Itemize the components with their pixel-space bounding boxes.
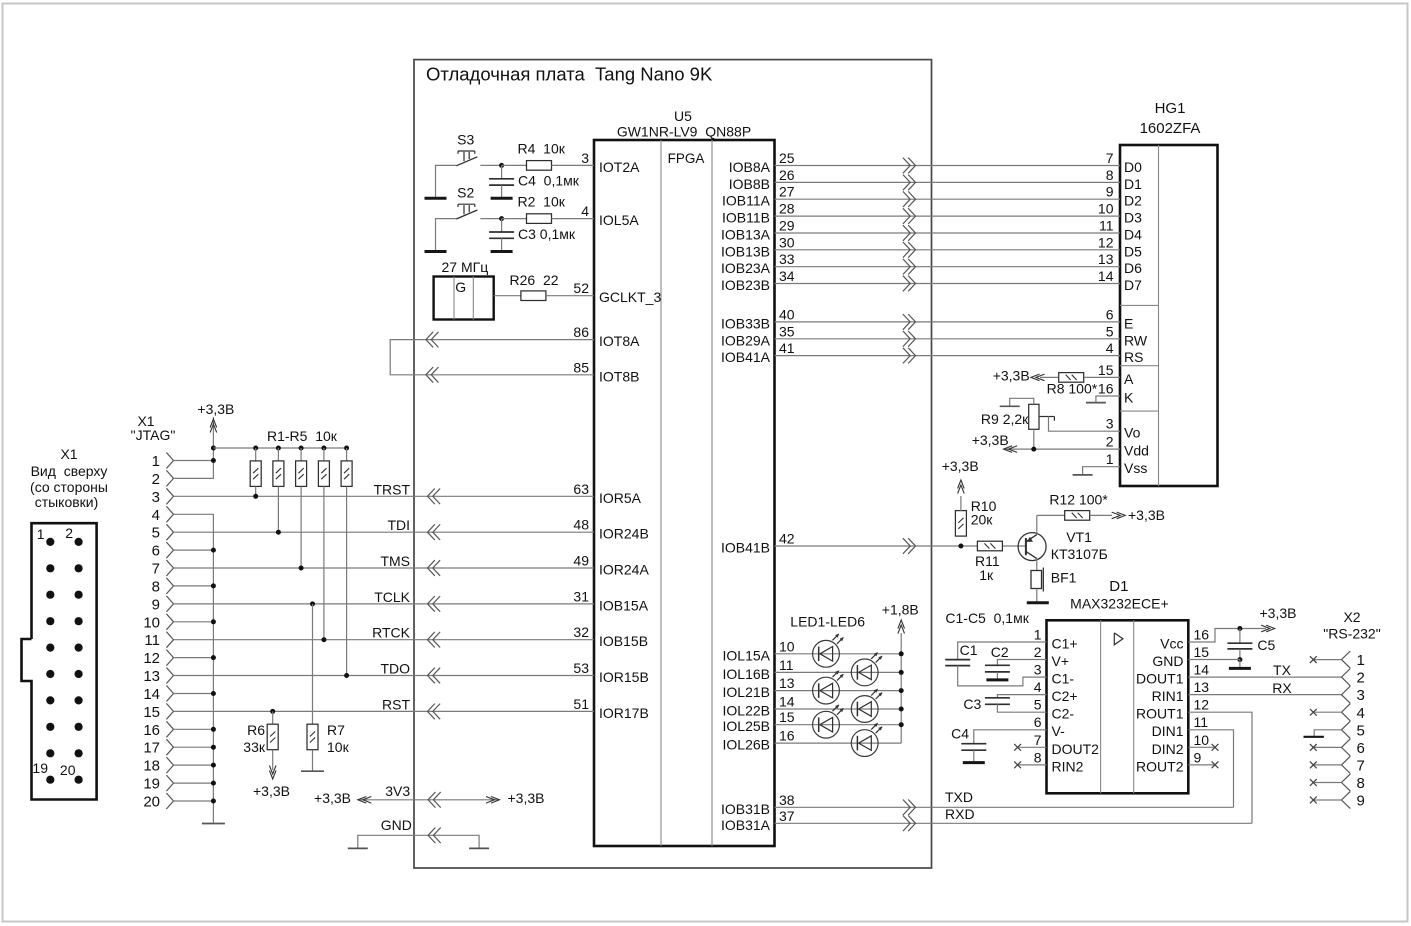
svg-text:5: 5 xyxy=(1357,722,1365,739)
svg-text:R9 2,2к: R9 2,2к xyxy=(981,411,1029,427)
svg-text:52: 52 xyxy=(573,280,589,296)
svg-text:D3: D3 xyxy=(1124,210,1142,226)
svg-text:R2 10к: R2 10к xyxy=(518,194,566,210)
svg-text:VT1: VT1 xyxy=(1066,529,1092,545)
svg-text:3: 3 xyxy=(1106,416,1114,432)
svg-text:2: 2 xyxy=(152,471,160,488)
svg-text:RST: RST xyxy=(382,696,410,712)
svg-text:IOB33B: IOB33B xyxy=(721,315,770,331)
svg-text:31: 31 xyxy=(573,588,589,604)
svg-text:R1-R5 10к: R1-R5 10к xyxy=(267,428,338,444)
svg-text:42: 42 xyxy=(779,531,795,547)
svg-text:RX: RX xyxy=(1272,680,1292,696)
svg-text:GW1NR-LV9 QN88P: GW1NR-LV9 QN88P xyxy=(617,124,751,140)
svg-text:8: 8 xyxy=(152,578,160,595)
svg-text:C2+: C2+ xyxy=(1052,688,1078,704)
svg-text:"JTAG": "JTAG" xyxy=(131,427,176,443)
svg-text:Отладочная плата Tang Nano 9K: Отладочная плата Tang Nano 9K xyxy=(426,64,713,85)
svg-text:14: 14 xyxy=(143,686,160,703)
svg-text:13: 13 xyxy=(1194,679,1210,695)
svg-text:6: 6 xyxy=(1106,306,1114,322)
svg-text:9: 9 xyxy=(1357,793,1365,810)
svg-text:DOUT2: DOUT2 xyxy=(1052,741,1100,757)
svg-text:K: K xyxy=(1124,390,1134,406)
svg-text:3: 3 xyxy=(1034,662,1042,678)
svg-text:Vss: Vss xyxy=(1124,460,1147,476)
svg-text:Vo: Vo xyxy=(1124,425,1141,441)
svg-text:IOT8B: IOT8B xyxy=(599,368,639,384)
svg-text:RS: RS xyxy=(1124,349,1143,365)
svg-text:12: 12 xyxy=(143,650,160,667)
svg-text:17: 17 xyxy=(143,740,160,757)
svg-text:3: 3 xyxy=(1357,687,1365,704)
svg-text:+3,3В: +3,3В xyxy=(972,432,1009,448)
svg-text:R12 100*: R12 100* xyxy=(1049,492,1108,508)
svg-text:8: 8 xyxy=(1357,775,1365,792)
svg-text:IOL21B: IOL21B xyxy=(723,684,770,700)
svg-text:5: 5 xyxy=(152,525,160,542)
svg-text:40: 40 xyxy=(779,306,795,322)
svg-text:48: 48 xyxy=(573,517,589,533)
svg-text:38: 38 xyxy=(779,792,795,808)
svg-text:V+: V+ xyxy=(1052,653,1070,669)
svg-text:15: 15 xyxy=(779,709,795,725)
svg-text:11: 11 xyxy=(779,657,794,673)
svg-text:5: 5 xyxy=(1034,697,1042,713)
svg-text:A: A xyxy=(1124,371,1134,387)
svg-text:4: 4 xyxy=(1106,340,1114,356)
svg-text:4: 4 xyxy=(152,507,160,524)
svg-text:IOB15B: IOB15B xyxy=(599,633,648,649)
svg-text:7: 7 xyxy=(1106,150,1114,166)
svg-text:X1: X1 xyxy=(60,446,77,462)
svg-text:3V3: 3V3 xyxy=(385,783,410,799)
svg-text:+3,3В: +3,3В xyxy=(1128,507,1165,523)
svg-text:X2: X2 xyxy=(1343,609,1360,625)
svg-text:15: 15 xyxy=(143,704,160,721)
svg-text:C2-: C2- xyxy=(1052,706,1075,722)
svg-text:+3,3В: +3,3В xyxy=(508,790,545,806)
svg-text:R6: R6 xyxy=(247,722,265,738)
svg-text:3: 3 xyxy=(152,489,160,506)
svg-text:+3,3В: +3,3В xyxy=(1260,605,1297,621)
svg-text:10: 10 xyxy=(1194,732,1210,748)
svg-text:13: 13 xyxy=(779,675,795,691)
svg-text:C1: C1 xyxy=(960,642,978,658)
svg-text:13: 13 xyxy=(1098,251,1114,267)
svg-text:20к: 20к xyxy=(971,512,994,528)
svg-text:КТ3107Б: КТ3107Б xyxy=(1051,546,1108,562)
svg-text:IOL16B: IOL16B xyxy=(723,666,770,682)
svg-text:IOB8B: IOB8B xyxy=(729,176,770,192)
svg-text:27 МГц: 27 МГц xyxy=(442,259,489,275)
svg-text:GND: GND xyxy=(381,817,412,833)
svg-text:16: 16 xyxy=(779,728,795,744)
svg-text:5: 5 xyxy=(1106,323,1114,339)
svg-text:85: 85 xyxy=(573,359,589,375)
svg-text:TCLK: TCLK xyxy=(374,589,410,605)
svg-text:DOUT1: DOUT1 xyxy=(1136,671,1184,687)
svg-text:TRST: TRST xyxy=(373,481,410,497)
svg-text:D1: D1 xyxy=(1109,578,1128,595)
svg-text:(со стороны: (со стороны xyxy=(30,479,108,495)
svg-text:15: 15 xyxy=(1194,644,1210,660)
svg-text:GND: GND xyxy=(1152,653,1183,669)
svg-text:S2: S2 xyxy=(457,185,474,201)
svg-text:25: 25 xyxy=(779,150,795,166)
svg-text:C4 0,1мк: C4 0,1мк xyxy=(518,173,580,189)
svg-text:BF1: BF1 xyxy=(1051,570,1077,586)
svg-text:IOB13B: IOB13B xyxy=(721,243,770,259)
svg-text:C3: C3 xyxy=(963,696,981,712)
svg-text:LED1-LED6: LED1-LED6 xyxy=(790,614,865,630)
svg-text:RIN2: RIN2 xyxy=(1052,758,1084,774)
svg-text:IOB31B: IOB31B xyxy=(721,801,770,817)
svg-text:12: 12 xyxy=(1098,234,1114,250)
svg-text:D0: D0 xyxy=(1124,159,1142,175)
svg-text:G: G xyxy=(455,279,466,295)
svg-text:R26 22: R26 22 xyxy=(510,272,559,288)
svg-text:37: 37 xyxy=(779,808,795,824)
svg-text:IOB29A: IOB29A xyxy=(721,332,771,348)
svg-text:HG1: HG1 xyxy=(1155,100,1186,117)
svg-text:RTCK: RTCK xyxy=(372,625,411,641)
svg-text:R8 100*: R8 100* xyxy=(1047,381,1098,397)
svg-text:11: 11 xyxy=(1194,714,1209,730)
svg-text:10: 10 xyxy=(143,614,160,631)
svg-text:IOR5A: IOR5A xyxy=(599,490,642,506)
svg-text:34: 34 xyxy=(779,268,795,284)
svg-text:16: 16 xyxy=(1098,381,1114,397)
svg-text:10: 10 xyxy=(1098,201,1114,217)
svg-text:IOT2A: IOT2A xyxy=(599,159,640,175)
svg-text:IOB15A: IOB15A xyxy=(599,597,649,613)
svg-text:4: 4 xyxy=(1357,705,1365,722)
svg-text:8: 8 xyxy=(1106,167,1114,183)
svg-text:6: 6 xyxy=(152,543,160,560)
svg-text:Vcc: Vcc xyxy=(1160,636,1183,652)
svg-text:IOB23A: IOB23A xyxy=(721,260,771,276)
svg-text:RXD: RXD xyxy=(945,806,975,822)
svg-text:+3,3В: +3,3В xyxy=(253,783,290,799)
svg-text:1602ZFA: 1602ZFA xyxy=(1140,120,1201,137)
svg-text:49: 49 xyxy=(573,553,589,569)
svg-text:6: 6 xyxy=(1034,714,1042,730)
svg-text:C1-: C1- xyxy=(1052,671,1075,687)
svg-text:D6: D6 xyxy=(1124,260,1142,276)
svg-text:86: 86 xyxy=(573,324,589,340)
svg-text:IOB41A: IOB41A xyxy=(721,349,771,365)
svg-text:D2: D2 xyxy=(1124,193,1142,209)
svg-text:9: 9 xyxy=(152,596,160,613)
svg-text:15: 15 xyxy=(1098,362,1114,378)
svg-text:14: 14 xyxy=(1098,268,1114,284)
svg-text:C1-C5 0,1мк: C1-C5 0,1мк xyxy=(945,610,1029,626)
svg-text:IOL5A: IOL5A xyxy=(599,212,639,228)
svg-text:13: 13 xyxy=(143,668,160,685)
svg-text:7: 7 xyxy=(152,561,160,578)
svg-text:FPGA: FPGA xyxy=(668,151,705,166)
svg-text:1к: 1к xyxy=(979,567,994,583)
svg-text:20: 20 xyxy=(143,794,160,811)
svg-text:IOB31A: IOB31A xyxy=(721,817,771,833)
svg-text:7: 7 xyxy=(1034,732,1042,748)
svg-text:12: 12 xyxy=(1194,697,1210,713)
svg-text:27: 27 xyxy=(779,184,795,200)
svg-text:IOL22B: IOL22B xyxy=(723,703,770,719)
svg-text:6: 6 xyxy=(1357,740,1365,757)
svg-text:8: 8 xyxy=(1034,749,1042,765)
svg-text:C2: C2 xyxy=(991,644,1009,660)
svg-text:MAX3232ECE+: MAX3232ECE+ xyxy=(1070,596,1168,612)
svg-text:DIN1: DIN1 xyxy=(1152,723,1184,739)
svg-text:+3,3В: +3,3В xyxy=(942,458,979,474)
svg-text:30: 30 xyxy=(779,234,795,250)
svg-text:9: 9 xyxy=(1106,184,1114,200)
svg-text:10: 10 xyxy=(779,638,795,654)
svg-text:TDI: TDI xyxy=(387,517,410,533)
svg-text:9: 9 xyxy=(1194,749,1202,765)
svg-text:1: 1 xyxy=(1034,627,1042,643)
svg-text:R4 10к: R4 10к xyxy=(518,140,566,156)
svg-text:19: 19 xyxy=(143,776,160,793)
svg-text:14: 14 xyxy=(779,694,795,710)
svg-text:4: 4 xyxy=(1034,679,1042,695)
svg-text:2: 2 xyxy=(65,525,73,541)
svg-text:V-: V- xyxy=(1052,723,1066,739)
svg-text:IOB13A: IOB13A xyxy=(721,227,771,243)
svg-text:+3,3В: +3,3В xyxy=(993,368,1030,384)
svg-text:"RS-232": "RS-232" xyxy=(1323,626,1380,642)
svg-text:51: 51 xyxy=(573,696,589,712)
svg-text:1: 1 xyxy=(152,453,160,470)
svg-text:IOB11B: IOB11B xyxy=(722,210,770,226)
svg-text:1: 1 xyxy=(37,526,45,542)
svg-text:+3,3В: +3,3В xyxy=(197,401,234,417)
svg-text:1: 1 xyxy=(1357,652,1365,669)
svg-text:IOB8A: IOB8A xyxy=(729,159,771,175)
svg-text:R7: R7 xyxy=(327,722,345,738)
svg-text:4: 4 xyxy=(581,203,589,219)
svg-text:TXD: TXD xyxy=(945,789,973,805)
svg-text:11: 11 xyxy=(1099,218,1114,234)
svg-text:33к: 33к xyxy=(243,739,266,755)
svg-text:3: 3 xyxy=(581,150,589,166)
svg-text:28: 28 xyxy=(779,201,795,217)
svg-text:11: 11 xyxy=(144,632,160,649)
svg-text:S3: S3 xyxy=(457,131,474,147)
svg-text:C4: C4 xyxy=(951,725,969,741)
svg-text:DIN2: DIN2 xyxy=(1152,741,1184,757)
svg-text:26: 26 xyxy=(779,167,795,183)
svg-text:19: 19 xyxy=(32,760,48,776)
svg-text:IOR24A: IOR24A xyxy=(599,562,649,578)
svg-text:33: 33 xyxy=(779,251,795,267)
svg-text:TX: TX xyxy=(1273,662,1292,678)
svg-text:10к: 10к xyxy=(327,739,350,755)
svg-text:C5: C5 xyxy=(1257,637,1275,653)
svg-text:Вид сверху: Вид сверху xyxy=(31,463,108,479)
svg-text:18: 18 xyxy=(143,758,160,775)
svg-text:ROUT1: ROUT1 xyxy=(1136,706,1184,722)
svg-text:35: 35 xyxy=(779,323,795,339)
svg-text:стыковки): стыковки) xyxy=(35,494,99,510)
svg-text:20: 20 xyxy=(60,762,76,778)
svg-text:53: 53 xyxy=(573,660,589,676)
svg-text:63: 63 xyxy=(573,481,589,497)
svg-text:IOT8A: IOT8A xyxy=(599,333,640,349)
svg-text:32: 32 xyxy=(573,624,589,640)
svg-text:D5: D5 xyxy=(1124,243,1142,259)
svg-text:29: 29 xyxy=(779,218,795,234)
svg-text:+3,3В: +3,3В xyxy=(314,790,351,806)
svg-text:U5: U5 xyxy=(674,108,692,124)
svg-text:14: 14 xyxy=(1194,662,1210,678)
svg-text:GCLKT_3: GCLKT_3 xyxy=(599,289,661,305)
svg-text:RIN1: RIN1 xyxy=(1152,688,1184,704)
svg-text:16: 16 xyxy=(1194,627,1210,643)
svg-text:D1: D1 xyxy=(1124,176,1142,192)
svg-text:1: 1 xyxy=(1106,451,1114,467)
svg-text:2: 2 xyxy=(1034,644,1042,660)
svg-text:IOB41B: IOB41B xyxy=(721,540,770,556)
svg-text:IOL15A: IOL15A xyxy=(723,647,771,663)
svg-text:ROUT2: ROUT2 xyxy=(1136,758,1184,774)
svg-text:TDO: TDO xyxy=(380,661,410,677)
svg-text:IOR15B: IOR15B xyxy=(599,669,649,685)
svg-text:C1+: C1+ xyxy=(1052,636,1078,652)
svg-text:D4: D4 xyxy=(1124,227,1142,243)
svg-text:Vdd: Vdd xyxy=(1124,443,1149,459)
svg-text:+1,8В: +1,8В xyxy=(882,602,919,618)
svg-text:IOL26B: IOL26B xyxy=(723,737,770,753)
svg-text:RW: RW xyxy=(1124,332,1148,348)
svg-text:IOR24B: IOR24B xyxy=(599,526,649,542)
svg-text:TMS: TMS xyxy=(380,553,410,569)
svg-text:2: 2 xyxy=(1106,434,1114,450)
svg-text:IOB11A: IOB11A xyxy=(722,193,771,209)
svg-text:IOB23B: IOB23B xyxy=(721,277,770,293)
svg-text:7: 7 xyxy=(1357,757,1365,774)
svg-text:41: 41 xyxy=(779,340,795,356)
svg-text:E: E xyxy=(1124,315,1133,331)
svg-text:D7: D7 xyxy=(1124,277,1142,293)
svg-text:16: 16 xyxy=(143,722,160,739)
svg-text:C3 0,1мк: C3 0,1мк xyxy=(518,226,576,242)
svg-text:IOL25B: IOL25B xyxy=(723,718,770,734)
svg-text:2: 2 xyxy=(1357,670,1365,687)
svg-text:IOR17B: IOR17B xyxy=(599,705,649,721)
